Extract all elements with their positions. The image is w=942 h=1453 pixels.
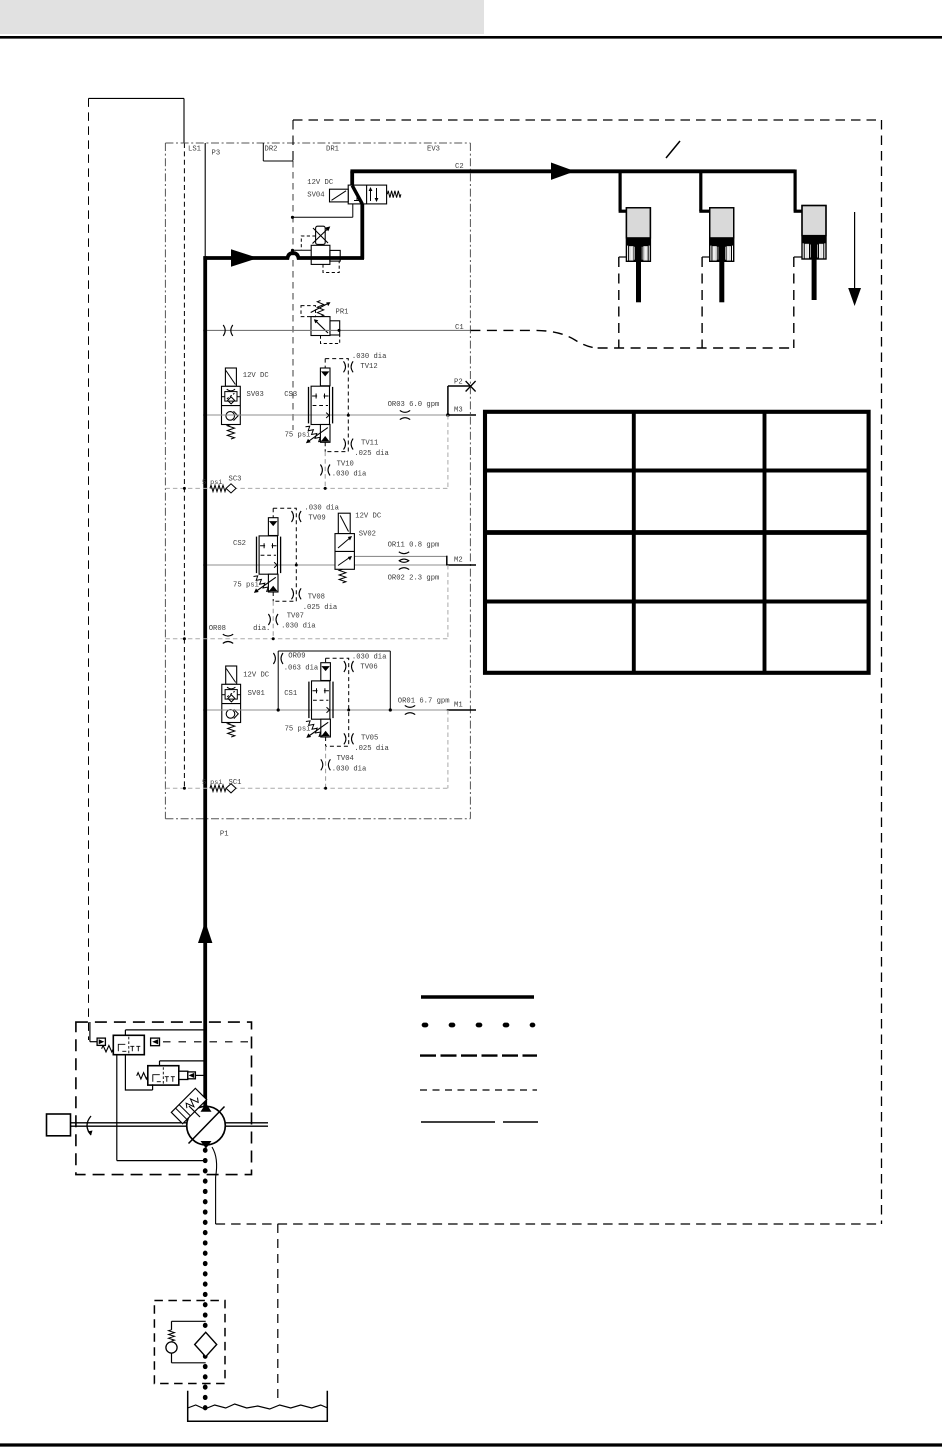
svg-text:SV03: SV03: [247, 391, 264, 399]
svg-text:.030 dia: .030 dia: [281, 623, 316, 631]
svg-text:.063 dia: .063 dia: [284, 665, 319, 673]
svg-text:SV01: SV01: [248, 690, 265, 698]
svg-text:CS3: CS3: [284, 391, 297, 399]
svg-text:12V DC: 12V DC: [243, 372, 270, 380]
svg-text:.030 dia: .030 dia: [332, 471, 367, 479]
svg-text:.030 dia: .030 dia: [352, 654, 387, 662]
svg-text:SC3: SC3: [229, 476, 242, 484]
svg-text:TV05: TV05: [361, 735, 378, 743]
svg-text:75 psi: 75 psi: [285, 726, 311, 734]
svg-text:P2: P2: [454, 379, 463, 387]
svg-text:OR01 6.7 gpm: OR01 6.7 gpm: [398, 698, 450, 706]
svg-text:TV09: TV09: [308, 515, 325, 523]
svg-text:M2: M2: [454, 557, 463, 565]
svg-text:.025 dia: .025 dia: [354, 745, 389, 753]
svg-text:75 psi: 75 psi: [285, 432, 311, 440]
svg-text:P3: P3: [212, 150, 221, 158]
svg-text:12V DC: 12V DC: [243, 672, 270, 680]
svg-text:DR2: DR2: [265, 146, 278, 154]
svg-text:CS1: CS1: [284, 690, 297, 698]
svg-text:.030 dia: .030 dia: [304, 505, 339, 513]
svg-text:SV02: SV02: [359, 531, 376, 539]
svg-text:EV3: EV3: [427, 146, 440, 154]
svg-text:C1: C1: [455, 324, 464, 332]
svg-text:TV08: TV08: [308, 594, 325, 602]
svg-text:SV04: SV04: [307, 192, 324, 200]
svg-text:OR02 2.3 gpm: OR02 2.3 gpm: [388, 575, 440, 583]
svg-text:LS1: LS1: [188, 146, 201, 154]
svg-text:.025 dia: .025 dia: [354, 450, 389, 458]
svg-text:OR11 0.8 gpm: OR11 0.8 gpm: [388, 542, 440, 550]
svg-text:TV04: TV04: [337, 755, 354, 763]
svg-text:TV11: TV11: [361, 440, 378, 448]
svg-text:12V DC: 12V DC: [307, 179, 334, 187]
svg-text:.030 dia: .030 dia: [352, 353, 387, 361]
svg-text:OR08: OR08: [209, 625, 226, 633]
svg-text:5 psi: 5 psi: [202, 479, 222, 487]
svg-text:PR1: PR1: [336, 309, 349, 317]
svg-text:M1: M1: [454, 702, 463, 710]
svg-text:75 psi: 75 psi: [233, 582, 259, 590]
svg-text:M3: M3: [454, 407, 463, 415]
svg-text:SC1: SC1: [229, 779, 242, 787]
svg-text:TV07: TV07: [287, 613, 304, 621]
svg-text:DR1: DR1: [326, 146, 339, 154]
svg-text:OR03 6.0 gpm: OR03 6.0 gpm: [388, 401, 440, 409]
svg-text:TV12: TV12: [360, 363, 377, 371]
svg-text:P1: P1: [220, 831, 229, 839]
svg-text:5 psi: 5 psi: [202, 779, 222, 787]
svg-text:.030 dia: .030 dia: [332, 766, 367, 774]
svg-text:TV06: TV06: [360, 664, 377, 672]
svg-text:.025 dia: .025 dia: [303, 604, 338, 612]
svg-text:TV10: TV10: [337, 461, 354, 469]
svg-text:dia.: dia.: [253, 625, 270, 633]
svg-text:C2: C2: [455, 163, 464, 171]
svg-text:CS2: CS2: [233, 540, 246, 548]
svg-text:OR09: OR09: [288, 653, 305, 661]
svg-text:12V DC: 12V DC: [355, 513, 382, 521]
